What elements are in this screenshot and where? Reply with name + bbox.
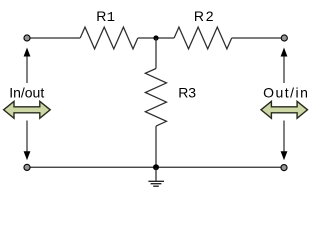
terminal In/out bottom [24, 164, 30, 170]
leader line In/out upper with up arrowhead [24, 48, 31, 84]
terminal In/out top [24, 35, 30, 41]
svg-text:R3: R3 [178, 84, 196, 100]
resistor R3 [145, 69, 166, 127]
leader line In/out lower with down arrowhead [24, 121, 31, 161]
junction node top [153, 35, 158, 40]
wire middle vertical lower [155, 126, 157, 167]
terminal Out/in bottom [281, 165, 287, 171]
wire middle vertical upper [155, 38, 157, 69]
wire top right segment [232, 37, 284, 39]
wire top left segment [27, 37, 80, 39]
leader line Out/in lower with down arrowhead [281, 121, 288, 161]
wire top middle segment [138, 37, 174, 39]
svg-text:In/out: In/out [9, 84, 44, 100]
junction node bottom [153, 164, 159, 170]
leader line Out/in upper with up arrowhead [281, 48, 288, 84]
svg-text:R: R [96, 8, 106, 24]
Out/in double arrow [261, 101, 308, 118]
resistor R2 [174, 27, 232, 49]
wire bottom [27, 166, 284, 168]
svg-text:R2: R2 [194, 8, 216, 24]
svg-text:1: 1 [107, 10, 115, 26]
svg-text:Out/in: Out/in [263, 85, 309, 101]
terminal Out/in top [281, 35, 287, 41]
ground [148, 167, 164, 186]
In/out double arrow [4, 101, 51, 118]
resistor R1 [80, 27, 138, 49]
